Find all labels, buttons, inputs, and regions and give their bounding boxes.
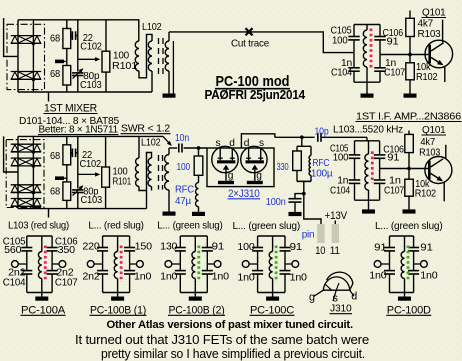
ground bar gate Q1: [218, 181, 234, 184]
wire resistor chain from top rail: [66, 20, 68, 29]
transformer L102 primary winding b (top): [148, 41, 152, 71]
svg-text:100: 100: [237, 242, 255, 253]
svg-text:1ST MIXER: 1ST MIXER: [44, 103, 98, 115]
resistor R102 10k: [409, 55, 411, 63]
diodes 8x BAT85 row 1: [11, 143, 42, 145]
capacitor C104: [348, 67, 360, 69]
svg-text:47µ: 47µ: [175, 196, 191, 207]
JFET Q2 source/drain leads: [248, 148, 250, 160]
inductor PC-100A: [41, 236, 43, 252]
wire 68 lower to bottom rail: [66, 85, 68, 92]
1st mixer dash-dot shield box (top): [7, 24, 45, 89]
svg-text:RFC: RFC: [312, 158, 329, 169]
capacitor C106: [374, 36, 386, 38]
svg-text:10: 10: [315, 245, 325, 257]
svg-text:L102: L102: [142, 22, 162, 33]
capacitors PC-100B (1) left upper: [97, 247, 108, 249]
capacitor 10p: [317, 133, 319, 142]
tuned circuit right branch: [379, 25, 381, 37]
capacitor C106: [374, 154, 386, 156]
wire drain rail to 10p and IF amp: [275, 136, 315, 138]
svg-text:PC-100A: PC-100A: [21, 304, 66, 316]
wire base feed: [380, 54, 428, 56]
svg-text:R103: R103: [419, 147, 441, 158]
ground PC-100B (2): [194, 293, 196, 297]
svg-text:R101: R101: [113, 176, 132, 187]
slug line PC-100A: [44, 246, 47, 283]
svg-text:L... (green slug): L... (green slug): [233, 221, 301, 232]
resistor 100 (blue label): [194, 156, 203, 175]
trimmer capacitor C103 80p (middle): [72, 189, 83, 191]
svg-text:R102: R102: [415, 187, 437, 199]
resistor R103 4k7: [408, 131, 410, 135]
svg-text:PC-100B (2): PC-100B (2): [169, 304, 225, 316]
wire L102 secondary to 1st IF amp with cut: [169, 32, 354, 53]
svg-text:RFC: RFC: [175, 185, 194, 196]
wire to +13V pin 10: [304, 194, 321, 224]
wire 10n to FET box: [184, 147, 207, 149]
tuned circuit bottom bridge: [355, 199, 380, 201]
svg-text:C102: C102: [80, 42, 102, 53]
slider bar at divider node (top): [55, 60, 64, 64]
terminal right PC-100B (1): [137, 261, 144, 268]
capacitor C107: [374, 179, 386, 181]
capacitors PC-100B (2) left upper: [175, 247, 186, 249]
capacitors PC-100A right lower: [47, 270, 58, 272]
wire bottom rail (middle mixer): [18, 208, 147, 210]
terminal left PC-100B (2): [165, 261, 172, 268]
svg-text:PC-100C: PC-100C: [250, 304, 294, 316]
svg-text:560: 560: [4, 245, 22, 256]
terminal right PC-100C: [292, 261, 299, 268]
arrow from SWR label to mixer output: [163, 136, 171, 144]
terminal left PC-100B (1): [87, 261, 94, 268]
svg-text:Q101: Q101: [422, 124, 446, 136]
wire top rail to L102 primary: [18, 20, 139, 41]
inductor PC-100B (2): [194, 236, 196, 252]
tuned circuit top bridge: [354, 24, 380, 26]
tuned circuit PC-100B (1) outline: [103, 235, 130, 237]
resistor R102 10k: [408, 169, 410, 180]
connector pin 10: [317, 224, 324, 243]
capacitors PC-100C right lower: [280, 270, 291, 272]
ground under RFC 47u: [192, 212, 205, 216]
capacitors PC-100A left lower: [21, 270, 32, 272]
svg-text:C103: C103: [81, 195, 103, 206]
wire RX input stub top mixer: [4, 18, 18, 56]
choke RFC 100u: [309, 156, 311, 176]
transformer L102 secondary winding (middle): [168, 148, 170, 155]
transformer L102 primary winding b (middle): [148, 158, 152, 187]
JFET Q2 J310 body: [241, 146, 267, 172]
svg-text:68: 68: [50, 34, 60, 45]
capacitor 10n: [178, 144, 180, 153]
svg-text:68: 68: [50, 69, 60, 80]
JFET Q1 channel: [217, 160, 235, 163]
diodes 8x BAT85 row 3: [11, 184, 42, 186]
svg-text:It turned out that J310 FETs o: It turned out that J310 FETs of the same…: [75, 332, 369, 347]
transformer L102 secondary winding (top): [165, 41, 169, 71]
svg-text:100: 100: [333, 152, 349, 163]
svg-text:1n0: 1n0: [134, 271, 152, 282]
trimmer capacitor C103 80p (top): [72, 72, 83, 74]
capacitors PC-100B (2) right lower: [202, 270, 213, 272]
svg-text:10p: 10p: [315, 127, 329, 138]
ground under tuned circuit: [362, 209, 375, 213]
svg-text:1n0: 1n0: [369, 270, 387, 281]
wire resistor chain from rail (middle): [66, 136, 68, 144]
tuned circuit bottom bridge: [354, 81, 380, 83]
wire between 68 resistors (middle): [66, 165, 68, 182]
J310 package drawing: [323, 277, 350, 290]
J310 leg d: [350, 290, 354, 296]
svg-text:L... (green slug): L... (green slug): [157, 221, 222, 232]
terminal right PC-100B (2): [214, 261, 221, 268]
JFET Q1 J310 body: [212, 146, 238, 172]
J310 leg s: [333, 290, 336, 301]
capacitor C102 22 (middle): [71, 152, 73, 154]
ground under tuned circuit: [361, 94, 374, 98]
svg-text:g: g: [309, 292, 315, 304]
svg-text:68: 68: [50, 151, 60, 162]
ground under L102 secondary (middle): [163, 212, 176, 216]
resistor R103 4k7: [409, 11, 411, 19]
wire base feed: [380, 168, 429, 170]
capacitors PC-100B (1) left lower: [97, 270, 108, 272]
JFET Q2 channel: [246, 160, 264, 163]
slug tuning line: [370, 29, 373, 69]
capacitors PC-100C left upper: [252, 247, 263, 249]
svg-text:PAØFRI 25jun2014: PAØFRI 25jun2014: [205, 88, 306, 102]
ground bar gate Q2: [247, 181, 263, 184]
inductor L103 winding: [368, 141, 370, 154]
tuned circuit PC-100D outline: [390, 235, 414, 237]
slug line PC-100C: [275, 246, 278, 283]
wire mixer vertical 2 (middle): [32, 136, 34, 208]
diodes 8x BAT85 row 4: [11, 198, 42, 200]
wire mixer vertical 1 (top): [17, 20, 19, 92]
svg-text:Cut trace: Cut trace: [231, 39, 269, 50]
svg-text:g: g: [228, 171, 234, 182]
svg-text:d: d: [244, 138, 250, 149]
inductor PC-100B (1): [117, 236, 119, 252]
transistor Q101: [425, 40, 453, 68]
svg-text:C102: C102: [80, 159, 102, 170]
svg-text:2n2: 2n2: [82, 271, 100, 282]
wire mixer vertical 1 (middle): [17, 136, 19, 208]
svg-text:C104: C104: [330, 185, 350, 196]
svg-text:SWR < 1.2: SWR < 1.2: [121, 124, 170, 135]
potentiometer R101 100 (top): [105, 20, 107, 51]
wire vertical C102/C103 branch (top): [77, 20, 79, 72]
transformer L102 primary winding a (top): [135, 41, 139, 71]
svg-text:2×J310: 2×J310: [228, 188, 260, 200]
capacitors PC-100D right lower: [408, 270, 419, 272]
svg-text:C107: C107: [384, 67, 405, 78]
svg-text:C104: C104: [3, 277, 26, 288]
ground under R102: [403, 209, 416, 213]
capacitors PC-100B (1) right lower: [124, 270, 135, 272]
svg-text:330: 330: [277, 162, 289, 173]
svg-text:150: 150: [135, 241, 153, 252]
diodes D101-D104 row 2 (top mixer): [11, 71, 42, 73]
svg-text:91: 91: [374, 242, 387, 253]
tuned circuit top bridge: [355, 140, 380, 142]
svg-text:91: 91: [420, 242, 433, 253]
capacitors PC-100C left lower: [252, 270, 263, 272]
cut trace X mark: [246, 28, 253, 35]
tuned circuit PC-100B (2) outline: [180, 235, 207, 237]
slug line PC-100D: [407, 246, 410, 283]
transformer L102 primary return (middle): [139, 153, 152, 191]
resistor 68 (lower, middle): [63, 182, 71, 201]
svg-text:10n: 10n: [175, 133, 189, 144]
svg-text:100n: 100n: [266, 197, 286, 208]
svg-text:pretty similar so I have simpl: pretty similar so I have simplified a pr…: [101, 346, 365, 361]
ground PC-100D: [404, 293, 406, 297]
transformer L102 primary winding a (middle): [138, 136, 140, 158]
parallel 330 and RFC 100u bracket: [297, 145, 311, 147]
resistor 330: [293, 151, 302, 171]
capacitor C107: [374, 67, 386, 69]
mixer dash-dot shield box (middle): [6, 140, 44, 208]
FET pair box: [207, 148, 274, 187]
svg-text:C104: C104: [331, 67, 352, 78]
svg-text:d: d: [351, 291, 357, 303]
potentiometer R101 100 (middle): [105, 136, 107, 167]
svg-text:PC-100D: PC-100D: [387, 304, 431, 316]
terminal right PC-100A: [59, 261, 66, 268]
svg-text:91: 91: [290, 242, 303, 253]
wire FET drains to output: [241, 134, 274, 148]
wire to 330/RFC network: [301, 137, 303, 146]
svg-text:L... (green slug): L... (green slug): [375, 221, 443, 232]
capacitor 100n branch: [295, 194, 304, 199]
tuned circuit left branch: [354, 141, 356, 155]
JFET Q1 source/drain leads: [219, 148, 221, 160]
capacitors PC-100B (2) right upper: [202, 247, 213, 249]
svg-text:1n0: 1n0: [420, 270, 438, 281]
resistor 68 (upper, top row): [63, 29, 71, 49]
capacitor C102 22 (top): [71, 35, 73, 37]
capacitors PC-100A left upper: [21, 247, 32, 249]
svg-text:L103...5520 kHz: L103...5520 kHz: [333, 125, 403, 136]
slug tuning line: [371, 151, 374, 183]
wire 100/RFC branch: [198, 148, 200, 156]
wire +13V to pin 11: [334, 221, 336, 225]
inductor L103 winding: [366, 25, 368, 31]
svg-text:4k7: 4k7: [420, 137, 435, 148]
ground PC-100A: [41, 293, 43, 297]
svg-text:R103: R103: [418, 29, 442, 40]
svg-text:C107: C107: [55, 277, 78, 288]
svg-text:1n0: 1n0: [212, 271, 230, 282]
tuned circuit right branch: [379, 141, 381, 155]
choke RFC 47u: [196, 183, 199, 207]
ground PC-100C: [272, 293, 274, 297]
svg-text:d: d: [229, 138, 235, 149]
slug line PC-100B (1): [120, 246, 123, 283]
wire down from 330/RFC: [303, 181, 305, 193]
svg-text:g: g: [256, 171, 262, 182]
J310 leg g: [314, 290, 324, 296]
terminal left PC-100C: [242, 261, 249, 268]
slider bar at divider node (middle): [55, 176, 64, 180]
svg-text:R102: R102: [416, 72, 438, 83]
wire bottom rail (top mixer to L102): [18, 91, 152, 93]
capacitors PC-100D left upper: [384, 247, 395, 249]
svg-text:11: 11: [330, 245, 340, 257]
svg-text:1n0: 1n0: [237, 272, 255, 283]
transformer L102 core (top): [158, 38, 160, 74]
svg-text:100µ: 100µ: [311, 169, 333, 180]
svg-text:91: 91: [212, 241, 225, 252]
svg-text:pin: pin: [302, 229, 315, 240]
svg-text:1n0: 1n0: [290, 272, 308, 283]
tuned circuit PC-100C outline: [258, 235, 285, 237]
slug line PC-100B (2): [197, 246, 200, 283]
wiper arrow into R101 (top): [78, 58, 97, 60]
wire LO stub (top mixer): [48, 92, 50, 102]
svg-text:350: 350: [58, 245, 76, 256]
transformer L102 core (middle): [158, 155, 160, 190]
svg-text:68: 68: [50, 186, 60, 197]
terminal left PC-100A: [12, 261, 19, 268]
ground under R102: [404, 94, 417, 98]
wire mixer vertical 2 (top): [32, 20, 34, 92]
tuned circuit PC-100A outline: [27, 235, 52, 237]
svg-text:91: 91: [387, 36, 400, 47]
svg-text:L... (red slug): L... (red slug): [88, 221, 143, 232]
capacitors PC-100D right upper: [408, 247, 419, 249]
svg-text:220: 220: [82, 241, 100, 252]
svg-text:100: 100: [177, 162, 191, 173]
inductor PC-100D: [404, 236, 406, 252]
capacitor C105: [349, 154, 361, 156]
resistor 68 (upper, middle): [63, 145, 71, 165]
wire top rail (middle mixer): [18, 135, 163, 137]
svg-text:1ST I.F. AMP...2N3866: 1ST I.F. AMP...2N3866: [356, 112, 461, 123]
terminal right PC-100D: [421, 261, 428, 268]
capacitor C104: [349, 179, 361, 181]
capacitors PC-100B (1) right upper: [124, 247, 135, 249]
svg-text:R101: R101: [112, 61, 138, 72]
svg-text:s: s: [259, 138, 264, 149]
transformer L102 primary return (top): [139, 34, 152, 77]
wire vertical C102/C103 branch (middle): [77, 136, 79, 188]
ground PC-100B (1): [117, 293, 119, 297]
resistor 68 (lower, top row): [63, 66, 71, 86]
svg-text:1n0: 1n0: [160, 271, 178, 282]
connector pin 11: [332, 224, 339, 243]
wire RX input stub (middle mixer): [4, 136, 18, 172]
svg-text:J310: J310: [330, 303, 352, 315]
svg-text:L102: L102: [141, 138, 161, 149]
ground under 100n: [289, 212, 302, 216]
svg-text:PC-100B (1): PC-100B (1): [90, 304, 146, 316]
JFET Q1 gate arrow: [223, 165, 229, 170]
svg-text:91: 91: [387, 152, 400, 163]
JFET Q2 gate arrow: [252, 165, 258, 170]
capacitors PC-100D left lower: [384, 270, 395, 272]
wire between 68 resistors (top): [66, 49, 68, 66]
svg-text:Other Atlas versions of past m: Other Atlas versions of past mixer tuned…: [107, 319, 354, 331]
svg-text:130: 130: [160, 241, 178, 252]
ground under L102 secondary (top): [163, 94, 176, 98]
tuned circuit left branch: [353, 25, 355, 37]
wiper arrow into R101 (middle): [78, 173, 97, 175]
diodes D101-D104 row 1 (top mixer): [11, 35, 42, 37]
capacitors PC-100C right upper: [280, 247, 291, 249]
capacitors PC-100B (2) left lower: [175, 270, 186, 272]
svg-text:C107: C107: [384, 185, 404, 196]
diodes 8x BAT85 row 2: [11, 157, 42, 159]
svg-text:s: s: [216, 138, 221, 149]
terminal left PC-100D: [374, 261, 381, 268]
transistor Q101: [425, 157, 452, 184]
capacitor C105: [348, 36, 360, 38]
wire LO stub (middle mixer): [48, 209, 50, 218]
svg-text:+13V: +13V: [325, 210, 348, 222]
capacitors PC-100A right upper: [47, 247, 58, 249]
wire L102 secondary to 10n: [169, 147, 177, 149]
svg-text:Better: 8 × 1N5711: Better: 8 × 1N5711: [39, 125, 119, 136]
svg-text:Q101: Q101: [422, 7, 446, 19]
svg-text:C103: C103: [80, 80, 102, 91]
svg-text:100: 100: [332, 36, 348, 47]
inductor PC-100C: [272, 236, 274, 252]
svg-text:L103 (red slug): L103 (red slug): [8, 220, 69, 231]
